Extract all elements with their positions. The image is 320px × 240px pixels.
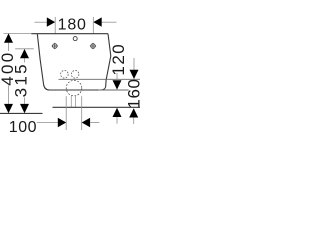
dimension 160 tail top bbox=[133, 58, 135, 70]
dashed inlet circle right bbox=[71, 71, 79, 79]
fixture bottom edge bbox=[50, 89, 101, 91]
arrow 180 right bbox=[93, 17, 101, 26]
top small hole bbox=[73, 37, 77, 41]
svg-text:180: 180 bbox=[58, 17, 87, 34]
fixture top edge bbox=[31, 33, 108, 35]
arrow 400 bottom bbox=[4, 104, 13, 113]
arrow 100 right bbox=[82, 118, 90, 127]
fixture right edge bbox=[100, 34, 111, 90]
fixture left edge bbox=[37, 34, 49, 90]
extension line outlet right bbox=[81, 96, 83, 130]
inner bowl line bbox=[59, 78, 105, 80]
arrow 160 top bbox=[130, 70, 139, 79]
svg-text:100: 100 bbox=[9, 119, 37, 136]
dimension 400 line bbox=[8, 42, 10, 104]
extension line hole right bbox=[92, 17, 94, 34]
floor line bbox=[0, 112, 43, 114]
reference line 79 right extension bbox=[104, 78, 140, 80]
fastening hole right bbox=[90, 43, 96, 49]
svg-text:120: 120 bbox=[109, 43, 128, 76]
extension line 315 datum bbox=[15, 48, 34, 50]
svg-text:160: 160 bbox=[124, 78, 140, 108]
reference line 107 bbox=[53, 106, 141, 108]
dimension 315 line bbox=[24, 58, 26, 104]
arrow 315 top bbox=[20, 49, 29, 58]
outlet pipe wall right bbox=[75, 96, 77, 108]
arrow 315 bottom bbox=[20, 104, 29, 113]
extension line outlet left bbox=[65, 96, 67, 130]
dashed inlet circle left bbox=[61, 71, 69, 79]
dimension 120 leader bbox=[116, 73, 118, 79]
arrow 160 bottom bbox=[129, 108, 138, 117]
dashed outlet circle bbox=[66, 80, 82, 96]
extension line top (400 datum) bbox=[4, 33, 32, 35]
reference line bottom edge extension bbox=[99, 89, 129, 91]
arrow 120 bottom bbox=[113, 108, 122, 117]
dimension 100 tail right bbox=[90, 122, 99, 124]
outlet pipe wall left bbox=[70, 96, 72, 108]
arrow 180 left bbox=[47, 17, 55, 26]
arrow 100 left bbox=[58, 118, 66, 127]
dimension 180 leader lines bbox=[35, 21, 117, 23]
dimension 100 leader bbox=[37, 122, 58, 124]
arrow 120 top bbox=[113, 80, 122, 89]
extension line hole left bbox=[54, 17, 56, 34]
svg-text:315: 315 bbox=[12, 62, 31, 97]
dimension 120 stem bottom bbox=[116, 117, 118, 124]
arrow 400 top bbox=[4, 33, 13, 42]
fastening hole left bbox=[52, 43, 58, 49]
dimension 160 stem bottom bbox=[133, 118, 135, 125]
